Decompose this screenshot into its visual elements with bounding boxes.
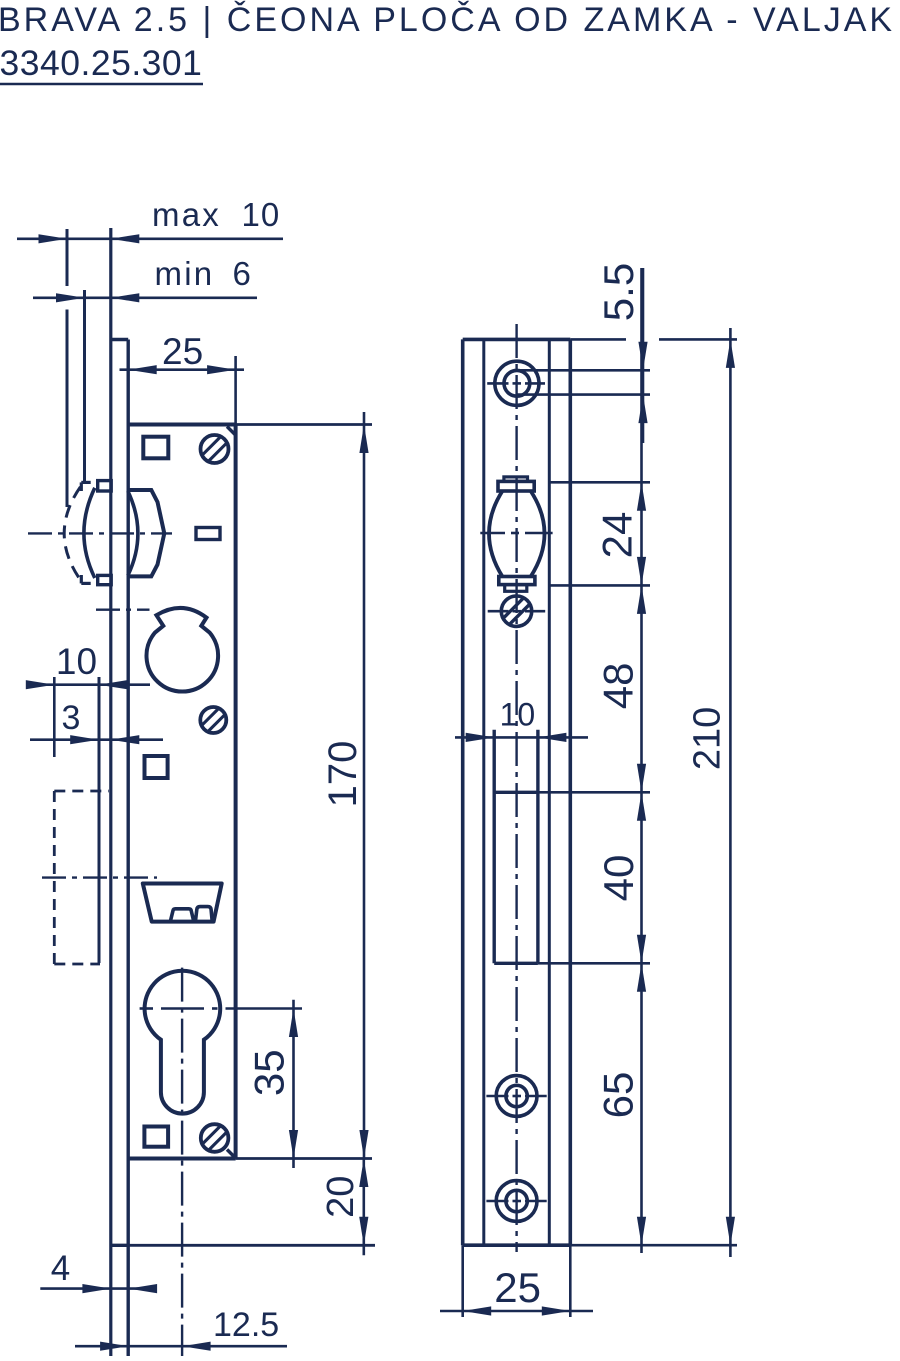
flat slot — [196, 528, 220, 540]
latch bolt — [143, 884, 222, 922]
left view profile outer extension line — [66, 229, 69, 507]
cutout bottom extension — [538, 962, 650, 965]
svg-text:40: 40 — [595, 855, 642, 902]
cylinder vertical centerline — [181, 968, 183, 1356]
plate top edge — [463, 338, 571, 342]
roller front bottom cap — [505, 585, 527, 592]
lock body right edge — [234, 425, 238, 1159]
svg-text:20: 20 — [320, 1176, 362, 1218]
left view wall inner line — [98, 677, 101, 963]
svg-text:min: min — [155, 255, 215, 292]
dim 24 arrows — [594, 482, 647, 585]
dim 170 — [321, 412, 369, 1159]
svg-text:BRAVA 2.5 | ČEONA PLOČA OD ZAM: BRAVA 2.5 | ČEONA PLOČA OD ZAMKA - VALJA… — [0, 1, 895, 39]
plate outer left edge — [461, 339, 465, 1245]
roller centerline — [28, 532, 172, 534]
screw axis centerline — [96, 609, 150, 611]
lock body top edge — [128, 423, 372, 427]
dim 3 — [30, 699, 163, 744]
bottom screw hole 2 — [486, 1181, 546, 1222]
cutout right edge — [536, 730, 539, 964]
svg-text:6: 6 — [233, 255, 251, 292]
title code 3340.25.301 — [0, 43, 203, 84]
dim 10 lower — [26, 641, 150, 757]
cylinder crosshair — [140, 1007, 302, 1010]
svg-text:3340.25.301: 3340.25.301 — [0, 43, 202, 83]
roller front barrel — [489, 491, 545, 577]
cutout top extension — [538, 791, 650, 794]
plate bottom extension — [570, 1244, 737, 1247]
svg-text:10: 10 — [56, 641, 97, 682]
left view plate bottom edge — [111, 1244, 375, 1247]
dim 25 bottom extension lines — [463, 1245, 571, 1317]
roller barrel right arc — [128, 491, 138, 576]
lock body top-right chamfer — [227, 427, 236, 436]
stacked dim line — [640, 268, 643, 1253]
left view plate front line — [109, 228, 112, 1356]
dim 40 arrows — [595, 792, 646, 963]
dim 65 arrows — [595, 963, 647, 1245]
roller pointed bolt — [128, 490, 164, 576]
pocket centerline — [42, 876, 157, 878]
dim 20 — [320, 1159, 368, 1256]
follower hole — [147, 608, 219, 692]
screw lower — [201, 1124, 229, 1152]
lock body bottom edge — [128, 1157, 372, 1161]
roller front top cap — [504, 477, 528, 482]
plate inner fold left — [482, 339, 485, 1245]
roller bottom flange left cap — [81, 575, 90, 583]
svg-text:25: 25 — [494, 1264, 541, 1311]
svg-text:25: 25 — [162, 331, 203, 372]
roller top flange — [98, 481, 112, 491]
svg-text:3: 3 — [62, 699, 81, 737]
cutout bottom edge — [494, 962, 538, 965]
svg-text:210: 210 — [687, 707, 729, 770]
dim 5.5 extension lines — [517, 370, 650, 394]
hidden pocket box — [54, 791, 109, 964]
plate top extension line — [570, 338, 737, 341]
svg-text:12.5: 12.5 — [213, 1306, 279, 1344]
left view min6 extension line — [83, 290, 86, 482]
roller top flange left cap — [81, 482, 90, 491]
roller front top flange — [498, 481, 534, 491]
dim 12.5 — [75, 1306, 287, 1351]
cutout top edge — [494, 791, 538, 794]
svg-text:10: 10 — [242, 196, 281, 233]
countersunk screw front — [488, 596, 546, 626]
plate inner fold right — [548, 339, 551, 1245]
svg-text:35: 35 — [246, 1049, 293, 1096]
svg-text:max: max — [152, 196, 221, 233]
svg-text:65: 65 — [595, 1072, 642, 1119]
dim 24 extension lines — [549, 482, 650, 585]
roller bottom flange — [98, 575, 112, 584]
dim 5.5 — [595, 263, 648, 443]
svg-text:48: 48 — [595, 663, 642, 710]
svg-text:4: 4 — [51, 1249, 70, 1288]
cutout left edge — [493, 730, 496, 964]
square hole upper — [143, 437, 168, 459]
left view plate top step — [111, 338, 128, 341]
svg-text:5.5: 5.5 — [595, 263, 642, 321]
dim 210 — [687, 328, 736, 1257]
square hole lower — [144, 1127, 168, 1147]
cylinder hole outline — [145, 971, 221, 1114]
dim 25 bottom — [440, 1264, 593, 1316]
dim min 6 — [33, 255, 257, 302]
dim 48 arrows — [595, 585, 647, 792]
roller hidden arc dashed — [64, 487, 80, 580]
dim 10 right — [455, 696, 588, 742]
svg-text:10: 10 — [500, 696, 536, 732]
dim 25 left view — [120, 331, 245, 425]
title line 1 — [0, 1, 895, 39]
plate outer right edge — [568, 339, 572, 1245]
plate bottom edge — [463, 1243, 571, 1247]
dim 35 — [246, 1000, 299, 1168]
plate centerline — [515, 324, 517, 1252]
screw middle — [200, 707, 226, 733]
dim max 10 — [17, 196, 283, 243]
square hole middle — [145, 756, 168, 778]
left view plate back line — [126, 340, 129, 1357]
roller front crosshair — [480, 532, 552, 535]
dim 4 — [40, 1249, 157, 1293]
bottom screw hole 1 — [486, 1076, 546, 1117]
roller front bottom flange — [499, 577, 535, 585]
lock body bottom-right chamfer — [227, 1150, 236, 1159]
svg-text:170: 170 — [321, 741, 365, 808]
screw upper — [201, 435, 229, 463]
roller barrel left arc — [84, 488, 95, 578]
top screw hole — [487, 361, 545, 405]
svg-text:24: 24 — [594, 512, 641, 559]
